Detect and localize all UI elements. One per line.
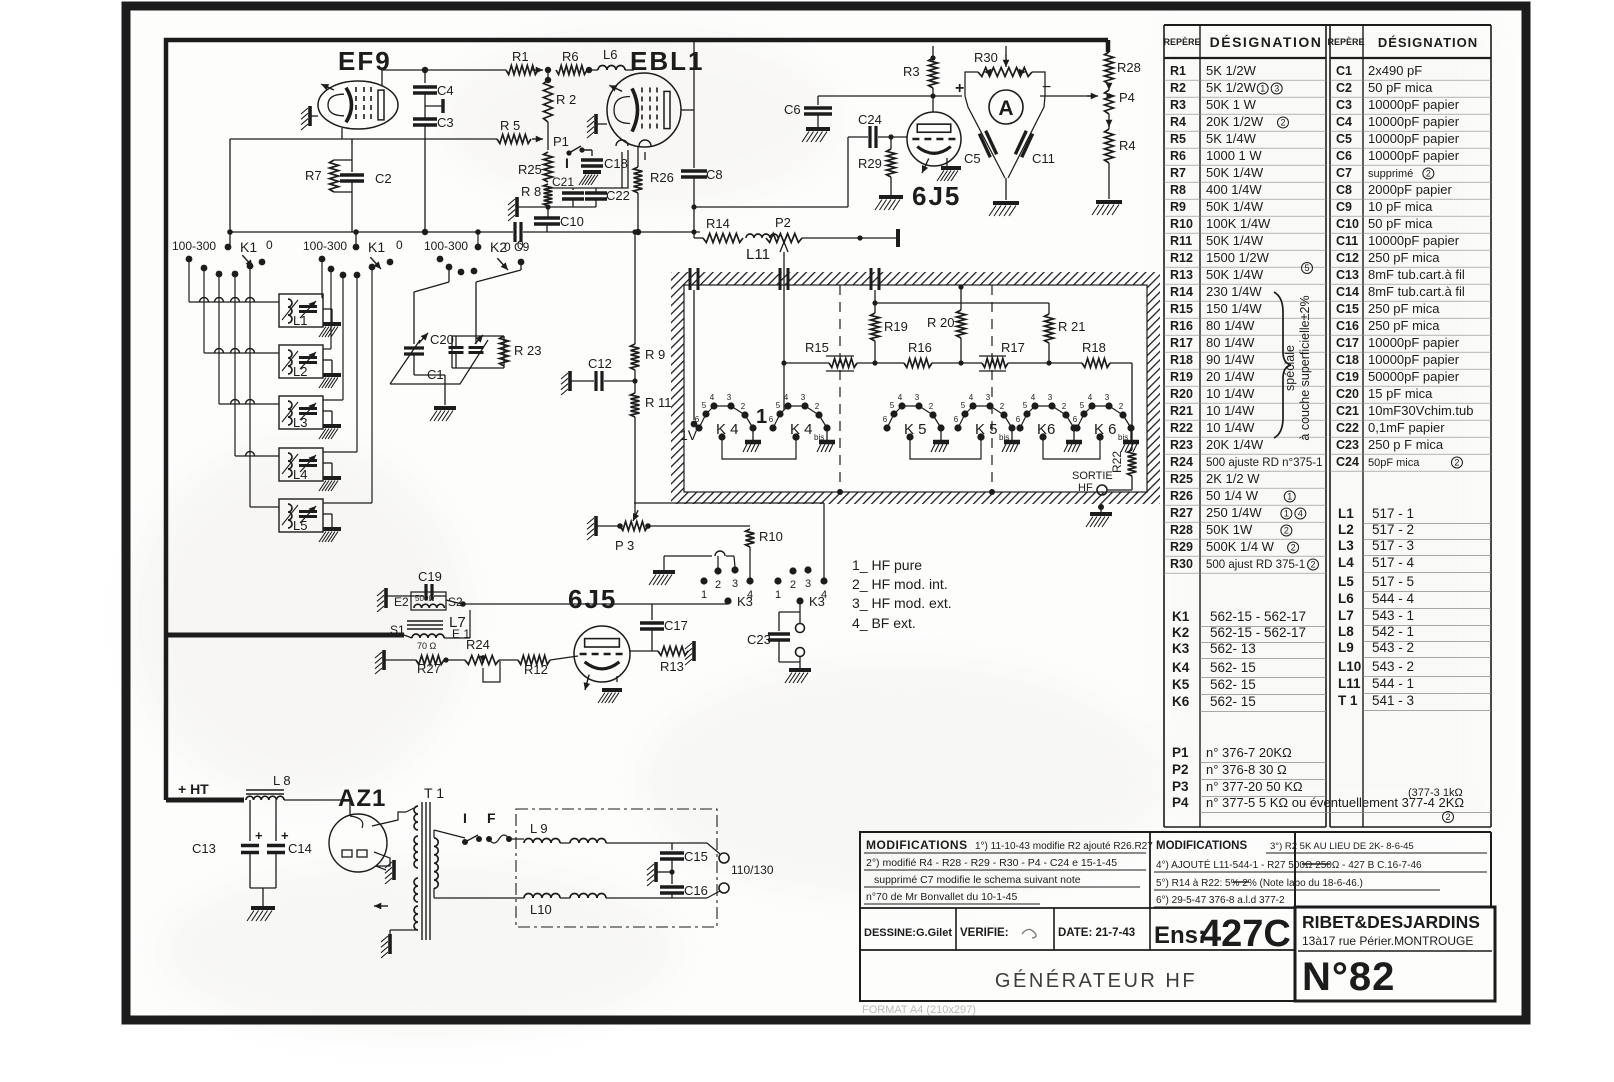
svg-text:10 1/4W: 10 1/4W — [1206, 386, 1255, 401]
svg-text:10mF30Vchim.tub: 10mF30Vchim.tub — [1368, 403, 1474, 418]
jack ground — [785, 670, 811, 683]
svg-text:0: 0 — [266, 238, 273, 252]
trimmer capacitor — [449, 336, 464, 353]
resistor R12 — [499, 656, 578, 678]
ground L3 — [319, 411, 341, 439]
svg-text:R13: R13 — [1170, 268, 1193, 282]
svg-text:supprimé: supprimé — [1368, 168, 1413, 180]
capacitor C24 — [848, 112, 907, 148]
svg-text:C7: C7 — [1336, 166, 1352, 180]
format note — [862, 1004, 976, 1016]
svg-text:250 1/4W: 250 1/4W — [1206, 505, 1262, 520]
capacitor C12 — [561, 356, 638, 395]
svg-text:R16: R16 — [1170, 319, 1193, 333]
svg-text:REPÈRE: REPÈRE — [1327, 37, 1364, 47]
svg-text:4°) AJOUTÉ L11-544-1 - R27 500: 4°) AJOUTÉ L11-544-1 - R27 500Ω 250Ω - 4… — [1156, 858, 1422, 871]
ground C6 — [802, 114, 830, 142]
ground K4bis — [817, 428, 835, 452]
svg-text:C15: C15 — [684, 849, 708, 864]
svg-text:n°70 de Mr Bonvallet du 10-1-: n°70 de Mr Bonvallet du 10-1-45 — [866, 891, 1017, 903]
svg-text:5: 5 — [890, 401, 895, 410]
AZ1 filament ground — [376, 860, 394, 884]
svg-text:R1: R1 — [1170, 64, 1186, 78]
svg-text:C6: C6 — [784, 102, 801, 117]
inner schematic border (top and left) — [166, 40, 1108, 800]
6J5 osc cathode arrow ground — [584, 675, 622, 703]
svg-text:MODIFICATIONS: MODIFICATIONS — [1156, 840, 1247, 852]
selector wires group2 to coil tops — [322, 259, 372, 503]
svg-text:R15: R15 — [805, 340, 829, 355]
svg-text:R18: R18 — [1170, 353, 1193, 367]
ground R29 — [875, 197, 903, 210]
tube 6J5 modulator — [907, 96, 961, 211]
svg-text:L1: L1 — [293, 313, 307, 328]
switch rows K1-K6 — [1172, 609, 1326, 712]
capacitor C5 — [964, 131, 997, 166]
svg-text:R 2: R 2 — [556, 92, 576, 107]
wire group2 feed — [353, 229, 359, 244]
svg-text:2: 2 — [1062, 402, 1067, 411]
svg-text:à couche superficielle±2%: à couche superficielle±2% — [1298, 295, 1312, 440]
capacitor C21 — [552, 175, 584, 207]
svg-text:MODIFICATIONS: MODIFICATIONS — [866, 838, 968, 852]
resistor R18 — [1008, 340, 1132, 368]
svg-text:5K 1/4W: 5K 1/4W — [1206, 131, 1257, 146]
svg-text:C11: C11 — [1032, 151, 1055, 166]
svg-text:C10: C10 — [560, 214, 584, 229]
R2 R5 junction wiper — [547, 122, 549, 150]
svg-text:2000pF papier: 2000pF papier — [1368, 182, 1453, 197]
svg-text:4: 4 — [898, 393, 903, 402]
svg-text:250 p F mica: 250 p F mica — [1368, 437, 1444, 452]
wire P3 right to R10 — [648, 525, 750, 527]
svg-text:C22: C22 — [606, 188, 630, 203]
svg-text:R19: R19 — [1170, 370, 1193, 384]
T1 secondary winding — [434, 838, 438, 888]
svg-text:R26: R26 — [650, 170, 674, 185]
meter triangle wires — [965, 96, 1045, 200]
ground R8 wall — [508, 197, 551, 221]
svg-text:R7: R7 — [1170, 166, 1186, 180]
svg-text:3: 3 — [1274, 84, 1279, 94]
svg-text:2: 2 — [741, 402, 746, 411]
resistor R20 — [927, 284, 966, 363]
coil L4 box — [279, 448, 323, 482]
potentiometer rows P1-P4 — [1172, 745, 1491, 823]
selector group 1 labels K1 — [172, 238, 273, 277]
svg-text:L3: L3 — [293, 415, 307, 430]
capacitor C4 — [413, 83, 454, 98]
svg-text:R21: R21 — [1170, 404, 1193, 418]
svg-text:K1: K1 — [240, 239, 257, 255]
wire R19 R21 top link — [875, 303, 1049, 314]
svg-text:L4: L4 — [1338, 555, 1354, 570]
svg-text:supprimé C7 modifie le sche: supprimé C7 modifie le schema suivant no… — [874, 874, 1081, 886]
switch K4bis — [769, 393, 831, 442]
svg-text:5: 5 — [961, 401, 966, 410]
meter A — [955, 79, 1051, 124]
tolerance brace R14-R22 note — [1274, 263, 1313, 441]
svg-text:80 1/4W: 80 1/4W — [1206, 335, 1255, 350]
svg-text:E2: E2 — [394, 595, 409, 609]
svg-text:2: 2 — [1000, 402, 1005, 411]
svg-text:spéciale: spéciale — [1283, 345, 1297, 391]
wire plus rail — [818, 93, 1098, 100]
svg-text:C2: C2 — [1336, 81, 1352, 95]
transformer E2 S2 C19 — [394, 569, 463, 610]
coil hop bumps — [200, 298, 255, 457]
svg-text:50K 1W: 50K 1W — [1206, 522, 1253, 537]
svg-text:P1: P1 — [553, 134, 569, 149]
potentiometer P3 — [587, 510, 651, 553]
svg-text:3: 3 — [727, 393, 732, 402]
svg-text:R11: R11 — [1170, 234, 1192, 248]
ground K6 — [1064, 428, 1082, 452]
svg-text:500Ω: 500Ω — [415, 594, 434, 603]
svg-text:6: 6 — [769, 415, 774, 424]
svg-text:3°) R2 5K AU LIEU DE 2K- 8-6-: 3°) R2 5K AU LIEU DE 2K- 8-6-45 — [1270, 841, 1414, 852]
capacitor C8 — [681, 167, 723, 182]
svg-text:K4: K4 — [1172, 660, 1190, 675]
ground K5bis — [1002, 428, 1020, 452]
wire K2 contacts to C20 — [414, 267, 449, 344]
choke L9 — [524, 821, 707, 843]
ground L2 — [319, 360, 341, 388]
svg-text:R25: R25 — [518, 162, 542, 177]
svg-text:544 - 4: 544 - 4 — [1372, 591, 1415, 606]
svg-text:6J5: 6J5 — [568, 584, 617, 614]
AZ1 anode wires to T1 — [372, 812, 406, 866]
svg-text:n° 376-8 30 Ω: n° 376-8 30 Ω — [1206, 762, 1287, 777]
svg-text:10000pF papier: 10000pF papier — [1368, 233, 1460, 248]
coil L5 box — [279, 499, 323, 533]
resistor R10 — [746, 529, 783, 578]
svg-text:+: + — [281, 828, 289, 843]
C20 C1 ground — [414, 353, 456, 421]
resistor R11 — [631, 370, 672, 516]
capacitor C16 — [660, 859, 708, 898]
svg-text:3_ HF mod. ext.: 3_ HF mod. ext. — [852, 595, 952, 611]
svg-text:100K 1/4W: 100K 1/4W — [1206, 216, 1271, 231]
svg-text:C14: C14 — [288, 841, 312, 856]
svg-text:L 9: L 9 — [530, 821, 548, 836]
svg-text:3: 3 — [732, 578, 738, 590]
EBL1 screen wires down — [616, 140, 651, 188]
transformer T1 core — [422, 785, 444, 940]
svg-text:R17: R17 — [1170, 336, 1193, 350]
svg-text:C19: C19 — [418, 569, 442, 584]
svg-text:DATE: 21-7-43: DATE: 21-7-43 — [1058, 927, 1135, 939]
svg-text:L9: L9 — [1338, 640, 1354, 655]
svg-text:517 - 5: 517 - 5 — [1372, 574, 1414, 589]
svg-text:6: 6 — [1073, 415, 1078, 424]
svg-text:K2: K2 — [1172, 625, 1189, 640]
svg-text:R4: R4 — [1119, 138, 1136, 153]
svg-text:1: 1 — [1284, 509, 1289, 519]
svg-text:P2: P2 — [775, 215, 791, 230]
svg-text:10 1/4W: 10 1/4W — [1206, 420, 1255, 435]
variable resistor R17 — [958, 340, 1024, 371]
resistor R22 — [1110, 450, 1137, 476]
svg-text:5K 1/2W: 5K 1/2W — [1206, 63, 1257, 78]
svg-text:R16: R16 — [908, 340, 932, 355]
HT thick wire — [166, 781, 244, 800]
svg-text:10000pF papier: 10000pF papier — [1368, 114, 1460, 129]
potentiometer R30 — [974, 46, 1032, 77]
capacitor C22 — [585, 188, 630, 207]
wire P2 to stop bar — [802, 229, 898, 247]
svg-text:AZ1: AZ1 — [338, 785, 386, 812]
svg-text:L1: L1 — [1338, 506, 1354, 521]
svg-text:10 pF mica: 10 pF mica — [1368, 199, 1433, 214]
tube EBL1 — [607, 46, 704, 147]
svg-text:K6: K6 — [1172, 694, 1190, 709]
resistor R8 — [521, 184, 553, 206]
coil L3 box — [279, 396, 323, 430]
svg-text:HF: HF — [1078, 482, 1093, 494]
wire T1 secondary bottom — [434, 888, 524, 898]
svg-text:R3: R3 — [903, 64, 920, 79]
svg-text:562- 15: 562- 15 — [1210, 677, 1256, 692]
resistor R19 — [871, 300, 908, 363]
svg-text:L11: L11 — [746, 246, 770, 263]
svg-text:6: 6 — [1016, 415, 1021, 424]
svg-text:562- 15: 562- 15 — [1210, 660, 1256, 675]
svg-text:L6: L6 — [1338, 591, 1354, 606]
svg-text:K1: K1 — [368, 239, 385, 255]
svg-text:C14: C14 — [1336, 285, 1359, 299]
svg-text:8mF tub.cart.à fil: 8mF tub.cart.à fil — [1368, 284, 1465, 299]
R30 frame wires — [965, 72, 1045, 96]
svg-text:0: 0 — [517, 238, 524, 252]
svg-text:1_ HF pure: 1_ HF pure — [852, 557, 922, 573]
svg-text:80 1/4W: 80 1/4W — [1206, 318, 1255, 333]
svg-text:n° 376-7 20KΩ: n° 376-7 20KΩ — [1206, 745, 1292, 760]
svg-text:R 9: R 9 — [645, 347, 665, 362]
selector group 3 labels K2 — [424, 229, 524, 275]
wire secondary to switch I — [434, 830, 465, 838]
svg-text:C21: C21 — [1336, 404, 1359, 418]
svg-text:R9: R9 — [1170, 200, 1186, 214]
svg-text:R8: R8 — [1170, 183, 1186, 197]
svg-text:L3: L3 — [1338, 538, 1354, 553]
svg-text:10000pF papier: 10000pF papier — [1368, 131, 1460, 146]
svg-text:SORTIE: SORTIE — [1072, 470, 1113, 482]
filter dash box — [516, 809, 717, 927]
resistor R23 — [500, 336, 542, 366]
svg-text:500K 1/4 W: 500K 1/4 W — [1206, 539, 1275, 554]
svg-text:EF9: EF9 — [338, 46, 392, 76]
svg-text:15 pF mica: 15 pF mica — [1368, 386, 1433, 401]
svg-text:6J5: 6J5 — [912, 181, 961, 211]
variable capacitor C1 — [427, 335, 484, 382]
svg-text:1: 1 — [775, 589, 781, 601]
svg-text:C18: C18 — [604, 156, 628, 171]
feedthrough capacitors — [690, 268, 698, 290]
svg-text:10000pF papier: 10000pF papier — [1368, 335, 1460, 350]
ground L5 — [319, 514, 341, 542]
EBL1 grid cap terminal — [587, 114, 607, 138]
svg-text:N°82: N°82 — [1302, 955, 1395, 999]
svg-text:L11: L11 — [1338, 676, 1361, 691]
svg-text:EBL1: EBL1 — [630, 46, 704, 76]
svg-text:L2: L2 — [1338, 522, 1354, 537]
svg-text:2_ HF mod. int.: 2_ HF mod. int. — [852, 576, 948, 592]
6J5 cathode arrow and ground — [922, 158, 961, 181]
capacitor C17 — [640, 604, 688, 651]
potentiometer P2 — [766, 215, 802, 268]
svg-text:R28: R28 — [1117, 60, 1141, 75]
ground K6bis — [1121, 428, 1139, 452]
resistor R14 — [703, 216, 743, 243]
variable resistor R15 — [805, 340, 857, 371]
svg-text:R2: R2 — [1170, 81, 1186, 95]
capacitor C2 — [340, 139, 392, 232]
wire S2 to 6J5 grid — [446, 600, 466, 607]
resistor R26 — [634, 146, 674, 235]
svg-text:562-15 - 562-17: 562-15 - 562-17 — [1210, 625, 1306, 640]
table headers — [1163, 34, 1478, 50]
svg-text:3: 3 — [801, 393, 806, 402]
svg-text:250 pF mica: 250 pF mica — [1368, 301, 1440, 316]
svg-text:R29: R29 — [858, 156, 882, 171]
svg-text:2: 2 — [815, 402, 820, 411]
svg-text:1: 1 — [756, 406, 767, 428]
resistor R27 — [416, 656, 449, 677]
svg-text:T 1: T 1 — [424, 785, 444, 801]
svg-text:20K 1/2W: 20K 1/2W — [1206, 114, 1264, 129]
svg-text:100-300: 100-300 — [424, 239, 468, 253]
svg-text:C3: C3 — [1336, 98, 1352, 112]
C1 R23 box — [452, 336, 504, 368]
svg-text:R27: R27 — [417, 661, 441, 676]
svg-text:6°) 29-5-47 376-8 a.l.d 37: 6°) 29-5-47 376-8 a.l.d 377-2 — [1156, 895, 1285, 906]
svg-text:R12: R12 — [524, 662, 548, 677]
svg-text:L10: L10 — [1338, 659, 1361, 674]
svg-text:C13: C13 — [1336, 268, 1359, 282]
wire EF9 anode to top rail — [382, 70, 506, 86]
coil rows L1-L11 T1 — [1338, 506, 1491, 711]
svg-text:R 11: R 11 — [645, 395, 672, 410]
selector wires group1 to coils — [189, 259, 279, 507]
svg-text:C4: C4 — [437, 83, 454, 98]
wire 6J5 plate to K3 wiper — [463, 602, 728, 604]
svg-text:5°) R14 à R22: 5% 2% (Note lab: 5°) R14 à R22: 5% 2% (Note labo du 18-6-… — [1156, 878, 1363, 889]
switch K4 — [695, 393, 757, 441]
svg-text:R14: R14 — [1170, 285, 1193, 299]
svg-text:R23: R23 — [1170, 438, 1193, 452]
svg-text:400 1/4W: 400 1/4W — [1206, 182, 1262, 197]
svg-text:L8: L8 — [1338, 624, 1354, 639]
svg-text:+ HT: + HT — [178, 781, 209, 797]
svg-text:C10: C10 — [1336, 217, 1359, 231]
svg-text:4: 4 — [710, 393, 715, 402]
svg-text:FORMAT A4 (210x297): FORMAT A4 (210x297) — [862, 1004, 976, 1016]
switch K3 first — [700, 566, 753, 609]
svg-text:R 20: R 20 — [927, 315, 954, 330]
svg-text:R5: R5 — [1170, 132, 1186, 146]
svg-text:100-300: 100-300 — [303, 239, 347, 253]
svg-text:R30: R30 — [974, 50, 998, 65]
svg-text:517 - 1: 517 - 1 — [1372, 506, 1414, 521]
svg-text:R 23: R 23 — [514, 343, 541, 358]
svg-text:10000pF papier: 10000pF papier — [1368, 352, 1460, 367]
svg-text:0,1mF papier: 0,1mF papier — [1368, 420, 1445, 435]
ground K4 — [743, 428, 761, 452]
wire P2 into box — [783, 268, 785, 410]
svg-text:−: − — [1042, 79, 1051, 96]
svg-text:1000 1 W: 1000 1 W — [1206, 148, 1262, 163]
svg-text:VERIFIE:: VERIFIE: — [960, 927, 1009, 939]
svg-text:K1: K1 — [1172, 609, 1190, 624]
R13 wall terminal — [685, 641, 694, 665]
capacitor C18 — [581, 150, 628, 171]
ground L1 — [319, 309, 341, 337]
coil L1 box — [279, 294, 323, 328]
svg-text:C8: C8 — [706, 167, 723, 182]
svg-text:L2: L2 — [293, 364, 307, 379]
ground R4 — [1092, 202, 1122, 215]
E2 wall terminal — [377, 588, 411, 612]
svg-text:517 - 4: 517 - 4 — [1372, 555, 1415, 570]
svg-text:DESSINE:G.Gilet: DESSINE:G.Gilet — [864, 927, 952, 939]
svg-text:P4: P4 — [1172, 795, 1189, 810]
svg-text:C4: C4 — [1336, 115, 1352, 129]
modifications box right — [1150, 832, 1491, 908]
svg-text:R6: R6 — [562, 49, 579, 64]
ground C13 C14 — [247, 888, 275, 921]
svg-text:C5: C5 — [1336, 132, 1352, 146]
svg-text:R3: R3 — [1170, 98, 1186, 112]
capacitor C14 — [250, 800, 312, 888]
EF9 grid cap terminal — [301, 106, 318, 130]
coil L11 — [746, 234, 778, 263]
svg-text:2°) modifié R4 - R28 - R29 - R: 2°) modifié R4 - R28 - R29 - R30 - P4 - … — [866, 857, 1117, 869]
resistor R16 — [857, 340, 982, 368]
ground meter — [989, 203, 1019, 216]
parts table grid — [1164, 25, 1491, 827]
svg-text:C1: C1 — [1336, 64, 1352, 78]
svg-text:L10: L10 — [530, 902, 552, 917]
svg-text:1: 1 — [1287, 492, 1292, 502]
svg-text:2x490 pF: 2x490 pF — [1368, 63, 1422, 78]
svg-text:R24: R24 — [466, 637, 490, 652]
svg-text:1500 1/2W: 1500 1/2W — [1206, 250, 1270, 265]
svg-text:C11: C11 — [1336, 234, 1358, 248]
svg-text:C2: C2 — [375, 171, 392, 186]
svg-text:5: 5 — [1304, 263, 1309, 273]
wire K2 wiper to C20 — [476, 262, 521, 344]
svg-text:6: 6 — [883, 415, 888, 424]
svg-text:RIBET&DESJARDINS: RIBET&DESJARDINS — [1302, 912, 1480, 932]
svg-text:1V: 1V — [680, 427, 698, 443]
C4 C3 junction bar — [425, 99, 443, 113]
svg-text:427C: 427C — [1200, 913, 1291, 955]
wire P1 to C18 box — [548, 150, 628, 188]
svg-text:6: 6 — [695, 415, 700, 424]
resistor R9 — [631, 344, 666, 370]
svg-text:517 - 3: 517 - 3 — [1372, 538, 1414, 553]
svg-text:10 1/4W: 10 1/4W — [1206, 403, 1255, 418]
ground K5 — [931, 428, 949, 452]
svg-text:50pF mica: 50pF mica — [1368, 457, 1420, 469]
ribet desjardins name block — [1295, 907, 1495, 1001]
resistor R3 — [903, 46, 938, 99]
resistor R21 — [1045, 314, 1086, 363]
svg-text:K3: K3 — [809, 594, 825, 609]
svg-text:C24: C24 — [1336, 455, 1359, 469]
svg-text:3: 3 — [1105, 393, 1110, 402]
